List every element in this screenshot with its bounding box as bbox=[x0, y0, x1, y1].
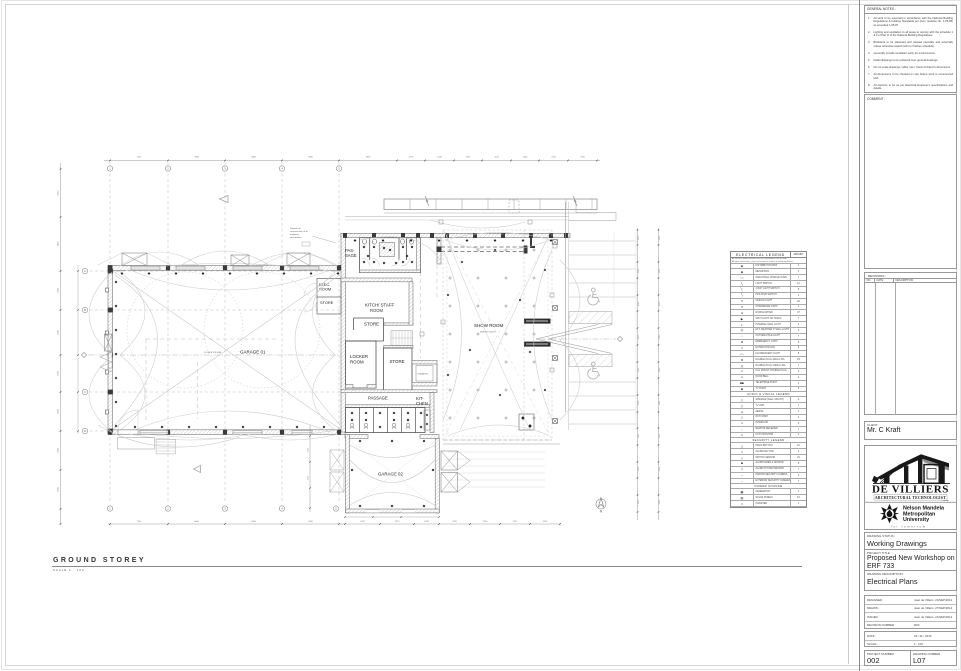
svg-text:C: C bbox=[84, 390, 86, 394]
svg-text:3900: 3900 bbox=[58, 408, 60, 413]
svg-text:SHOW ROOM: SHOW ROOM bbox=[474, 323, 503, 328]
svg-text:9630: 9630 bbox=[251, 157, 256, 159]
svg-text:concrete slab, at to: concrete slab, at to bbox=[290, 230, 308, 233]
svg-text:2740: 2740 bbox=[308, 447, 310, 452]
svg-text:DOUBLE VOLUME: DOUBLE VOLUME bbox=[204, 352, 222, 354]
svg-text:2440: 2440 bbox=[638, 367, 640, 372]
svg-text:MOBILE VOLVO: MOBILE VOLVO bbox=[480, 332, 496, 334]
svg-text:CHEN: CHEN bbox=[416, 401, 428, 406]
svg-text:2440: 2440 bbox=[659, 433, 661, 438]
svg-text:8940: 8940 bbox=[58, 190, 60, 195]
svg-text:3140: 3140 bbox=[437, 157, 442, 159]
svg-text:GARAGE 02: GARAGE 02 bbox=[378, 472, 403, 477]
svg-text:2440: 2440 bbox=[659, 301, 661, 306]
svg-text:3820: 3820 bbox=[58, 241, 60, 246]
svg-text:5: 5 bbox=[335, 507, 337, 511]
svg-text:1: 1 bbox=[109, 507, 111, 511]
svg-text:STORE: STORE bbox=[364, 322, 379, 327]
svg-text:STORE: STORE bbox=[390, 359, 405, 364]
svg-text:2440: 2440 bbox=[638, 235, 640, 240]
svg-text:engineers: engineers bbox=[290, 233, 299, 236]
svg-text:2: 2 bbox=[167, 167, 169, 171]
svg-text:ROOM: ROOM bbox=[350, 360, 364, 365]
svg-text:2440: 2440 bbox=[638, 334, 640, 339]
svg-text:9630: 9630 bbox=[194, 157, 199, 159]
svg-text:ELEVATOR: ELEVATOR bbox=[418, 373, 429, 376]
svg-text:3: 3 bbox=[224, 167, 226, 171]
svg-text:KITCH/ STAFF: KITCH/ STAFF bbox=[365, 303, 395, 308]
svg-text:2440: 2440 bbox=[659, 400, 661, 405]
svg-text:2440: 2440 bbox=[638, 301, 640, 306]
svg-text:LOCKER: LOCKER bbox=[350, 354, 368, 359]
svg-text:DE VILLIERS: DE VILLIERS bbox=[872, 484, 949, 496]
svg-text:3130: 3130 bbox=[424, 521, 429, 523]
svg-text:2440: 2440 bbox=[659, 334, 661, 339]
svg-text:2440: 2440 bbox=[638, 400, 640, 405]
svg-text:1: 1 bbox=[109, 167, 111, 171]
svg-text:9630: 9630 bbox=[308, 157, 313, 159]
svg-text:9630: 9630 bbox=[194, 521, 199, 523]
svg-text:2440: 2440 bbox=[659, 235, 661, 240]
svg-text:© design: © design bbox=[942, 499, 950, 502]
svg-text:3900: 3900 bbox=[58, 447, 60, 452]
svg-text:9630: 9630 bbox=[366, 157, 371, 159]
svg-text:Detector on: Detector on bbox=[290, 227, 302, 230]
svg-text:3900: 3900 bbox=[58, 287, 60, 292]
svg-text:2440: 2440 bbox=[638, 466, 640, 471]
svg-text:N: N bbox=[600, 510, 603, 514]
svg-text:3140: 3140 bbox=[551, 157, 556, 159]
svg-text:4270: 4270 bbox=[395, 521, 400, 523]
svg-text:2440: 2440 bbox=[659, 499, 661, 504]
svg-text:2440: 2440 bbox=[659, 367, 661, 372]
svg-text:2440: 2440 bbox=[638, 433, 640, 438]
svg-text:2440: 2440 bbox=[638, 268, 640, 273]
svg-text:STORE: STORE bbox=[320, 300, 334, 305]
svg-text:2440: 2440 bbox=[659, 466, 661, 471]
svg-text:3130: 3130 bbox=[452, 521, 457, 523]
svg-text:3: 3 bbox=[224, 507, 226, 511]
svg-text:3140: 3140 bbox=[466, 157, 471, 159]
svg-text:7140: 7140 bbox=[137, 521, 142, 523]
svg-text:7140: 7140 bbox=[137, 157, 142, 159]
svg-text:9630: 9630 bbox=[251, 521, 256, 523]
svg-text:5: 5 bbox=[338, 167, 340, 171]
svg-text:4: 4 bbox=[281, 167, 283, 171]
svg-text:3130: 3130 bbox=[513, 521, 518, 523]
svg-text:specification: specification bbox=[290, 236, 302, 239]
svg-text:B: B bbox=[84, 308, 86, 312]
svg-text:2740: 2740 bbox=[308, 475, 310, 480]
svg-text:3140: 3140 bbox=[494, 157, 499, 159]
svg-text:3130: 3130 bbox=[543, 521, 548, 523]
svg-text:4770: 4770 bbox=[409, 157, 414, 159]
svg-text:3140: 3140 bbox=[580, 157, 585, 159]
svg-text:2440: 2440 bbox=[638, 499, 640, 504]
svg-text:PASSAGE: PASSAGE bbox=[368, 396, 388, 401]
svg-text:2440: 2440 bbox=[659, 268, 661, 273]
svg-text:4500: 4500 bbox=[58, 329, 60, 334]
svg-text:9630: 9630 bbox=[308, 521, 313, 523]
svg-text:4: 4 bbox=[281, 507, 283, 511]
svg-text:3900: 3900 bbox=[58, 486, 60, 491]
svg-text:D: D bbox=[84, 429, 86, 433]
svg-text:University: University bbox=[903, 517, 929, 523]
svg-text:3130: 3130 bbox=[483, 521, 488, 523]
svg-text:for tomorrow: for tomorrow bbox=[891, 524, 926, 528]
svg-text:2: 2 bbox=[167, 507, 169, 511]
svg-text:ROOM: ROOM bbox=[370, 308, 384, 313]
svg-text:3700: 3700 bbox=[58, 370, 60, 375]
svg-text:4470: 4470 bbox=[360, 521, 365, 523]
svg-text:ARCHITECTURAL TECHNOLOGIST: ARCHITECTURAL TECHNOLOGIST bbox=[875, 496, 946, 500]
svg-text:SAGE: SAGE bbox=[345, 253, 357, 258]
svg-text:A: A bbox=[84, 269, 86, 273]
svg-text:3140: 3140 bbox=[523, 157, 528, 159]
svg-text:GARAGE 01: GARAGE 01 bbox=[240, 350, 266, 355]
